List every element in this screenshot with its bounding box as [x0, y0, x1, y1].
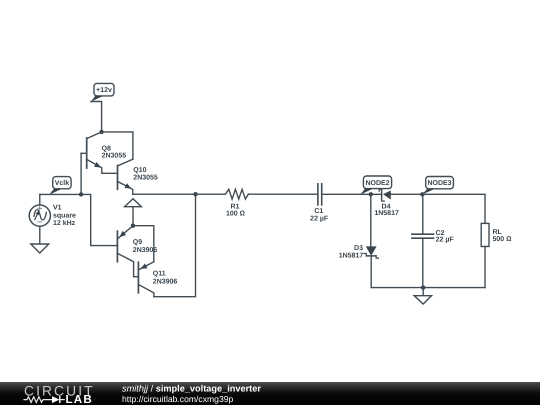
- wire branch to Q8 base: [80, 153, 82, 194]
- pnp pair emitter arrow: [125, 199, 142, 226]
- net flag NODE2: [360, 176, 391, 195]
- svg-text:http://circuitlab.com/cxmg39p: http://circuitlab.com/cxmg39p: [122, 394, 234, 404]
- node junction Vclk: [79, 192, 83, 196]
- svg-text:22 µF: 22 µF: [436, 237, 455, 244]
- wire bottom rail: [371, 287, 485, 289]
- wire output to R1: [133, 193, 226, 195]
- capacitor C1: [310, 184, 329, 223]
- svg-text:12 kHz: 12 kHz: [53, 219, 76, 227]
- diode D3: [339, 194, 379, 287]
- net flag +12v: [91, 83, 114, 101]
- svg-text:2N3906: 2N3906: [153, 278, 178, 285]
- svg-text:Vclk: Vclk: [55, 179, 70, 187]
- transistor Q11: [138, 262, 177, 297]
- node junction NODE3: [420, 192, 424, 196]
- wire pnp emitter to Q11: [133, 226, 154, 262]
- net flag Vclk: [49, 177, 71, 195]
- svg-text:RL: RL: [493, 229, 503, 236]
- node junction NODE2: [369, 192, 373, 196]
- svg-text:C1: C1: [314, 208, 323, 215]
- svg-text:Q9: Q9: [133, 239, 142, 246]
- svg-text:22 µF: 22 µF: [310, 215, 329, 222]
- svg-text:Q10: Q10: [133, 167, 146, 174]
- svg-text:100 Ω: 100 Ω: [226, 211, 246, 218]
- voltage source V1: [29, 194, 76, 244]
- resistor RL: [481, 223, 512, 287]
- node junction ground: [421, 285, 425, 289]
- svg-text:R1: R1: [231, 204, 240, 211]
- svg-text:square: square: [53, 212, 76, 219]
- svg-text:500 Ω: 500 Ω: [493, 236, 513, 243]
- svg-text:NODE3: NODE3: [427, 180, 451, 187]
- net flag NODE3: [422, 177, 453, 195]
- wire +12v to rail: [91, 102, 102, 132]
- capacitor C2: [412, 194, 454, 287]
- svg-text:V1: V1: [53, 205, 62, 212]
- wire collector rail: [102, 132, 133, 159]
- svg-text:1N5817: 1N5817: [339, 253, 364, 260]
- node junction at rail top: [99, 130, 103, 134]
- svg-text:1N5817: 1N5817: [374, 210, 399, 217]
- svg-text:LAB: LAB: [66, 393, 93, 405]
- svg-text:D3: D3: [354, 245, 363, 252]
- node junction pnp emitters: [131, 224, 135, 228]
- logo diode: [52, 396, 60, 403]
- svg-text:2N3055: 2N3055: [133, 174, 158, 181]
- resistor R1: [225, 189, 248, 217]
- transistor Q9: [117, 226, 157, 277]
- wire V1 to bases: [40, 194, 118, 245]
- svg-text:Q8: Q8: [102, 146, 111, 153]
- svg-text:NODE2: NODE2: [365, 180, 389, 187]
- ground under V1: [31, 244, 49, 253]
- wire C1 to node2: [322, 193, 382, 195]
- node junction output: [193, 192, 197, 196]
- svg-text:2N3055: 2N3055: [102, 153, 127, 160]
- diode D4: [374, 189, 399, 217]
- wire D4 to node3: [391, 194, 485, 223]
- wire Q11 collector to output node: [154, 194, 196, 297]
- logo resistor: [23, 397, 52, 403]
- svg-text:Q11: Q11: [153, 271, 166, 278]
- wire R1 to C1: [248, 193, 318, 195]
- ground main: [414, 288, 431, 304]
- svg-text:+12v: +12v: [96, 87, 112, 94]
- transistor Q10: [118, 159, 158, 194]
- transistor Q8: [81, 132, 126, 173]
- svg-text:smithjj / simple_voltage_inver: smithjj / simple_voltage_inverter: [122, 383, 261, 393]
